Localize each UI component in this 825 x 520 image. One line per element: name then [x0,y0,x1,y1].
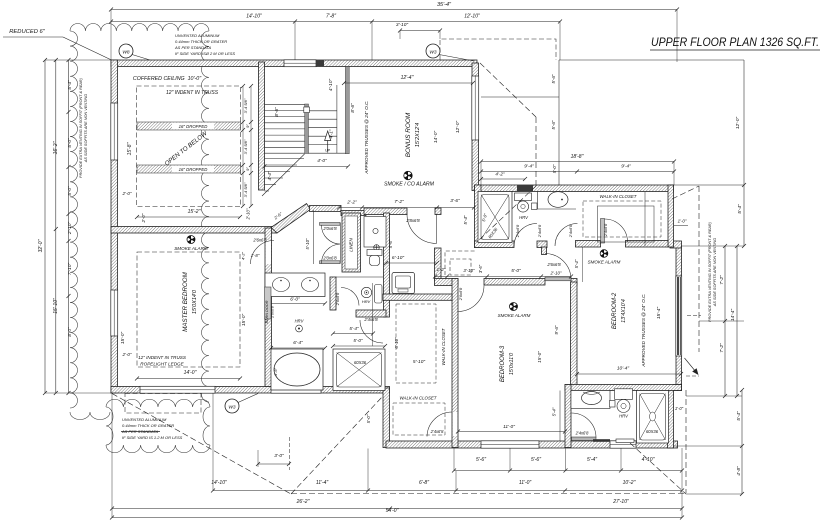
wall top of bath/walk-in closet [475,185,674,192]
svg-text:REDUCED 6": REDUCED 6" [9,29,45,35]
svg-text:3'-4 5/8": 3'-4 5/8" [243,139,248,154]
window master bath bottom [271,386,321,393]
svg-text:14'-10": 14'-10" [246,14,262,20]
svg-text:10'-4": 10'-4" [617,366,630,372]
door bed3 entry [459,286,485,312]
svg-text:15'-2": 15'-2" [188,209,201,215]
svg-text:15'-0": 15'-0" [120,332,126,345]
baseboard heater bed3 corner [593,439,610,442]
svg-text:2'6x6'8: 2'6x6'8 [335,292,340,306]
bath-2 bottom wall left [475,241,515,248]
svg-text:6'-10": 6'-10" [394,337,399,349]
svg-text:11'-0": 11'-0" [519,480,532,486]
svg-text:SMOKE ALARM: SMOKE ALARM [174,246,208,251]
smoke alarm master [187,236,195,244]
svg-text:APPROVED TRUSSES @ 24" O.C.: APPROVED TRUSSES @ 24" O.C. [364,100,369,174]
svg-text:IF SIDE YARD IS 1.2 M OR LESS: IF SIDE YARD IS 1.2 M OR LESS [122,435,183,440]
svg-text:3'-4 5/8": 3'-4 5/8" [243,98,248,113]
shower bath-2 60X36 [478,192,512,243]
svg-text:10'-2": 10'-2" [623,480,636,486]
svg-text:BEDROOM-2: BEDROOM-2 [612,292,618,329]
toilet bath-4 [615,389,633,400]
svg-text:4'-1": 4'-1" [329,129,334,138]
svg-text:9'-4": 9'-4" [621,164,631,170]
svg-text:7'-2": 7'-2" [719,275,725,285]
door bath-4 [572,413,597,438]
svg-text:1'-8": 1'-8" [251,253,260,258]
svg-text:2'4x6'8: 2'4x6'8 [603,223,608,237]
svg-text:12" INDENT IN TRUSS: 12" INDENT IN TRUSS [166,90,219,96]
svg-text:2'4x6'8: 2'4x6'8 [537,224,542,238]
svg-text:3'-6": 3'-6" [478,264,483,273]
svg-text:5'-4": 5'-4" [552,407,557,416]
roof edge lines top right [559,59,744,61]
HRV master [296,325,303,332]
bed3 top wall right [484,279,545,286]
revision cloud left [70,23,209,419]
roof line dashed left valley [112,394,291,495]
svg-text:5'-10": 5'-10" [413,359,426,365]
bath-2 bottom wall jamb [537,241,547,248]
sink 1 [273,278,290,292]
vanity bath-4 [571,391,610,409]
svg-text:8'-6": 8'-6" [350,103,356,113]
sink 2 [302,278,319,292]
svg-text:5'-4": 5'-4" [67,80,73,90]
svg-text:UNVENTED ALUMINUM: UNVENTED ALUMINUM [122,417,167,422]
svg-text:3'-10": 3'-10" [396,22,409,28]
window top wall [284,60,316,67]
exterior wall left [111,60,118,393]
door hall big arc [407,214,437,244]
svg-text:WALK-IN CLOSET: WALK-IN CLOSET [399,396,436,401]
svg-text:UNVENTED ALUMINUM: UNVENTED ALUMINUM [175,33,220,38]
door arcs [322,225,341,263]
svg-text:W8: W8 [122,50,130,56]
svg-text:LINEN: LINEN [349,238,354,252]
svg-text:11'-0": 11'-0" [503,424,515,430]
svg-text:2'0x6'8: 2'0x6'8 [322,255,337,260]
exterior wall top [111,60,477,67]
svg-text:4'-10": 4'-10" [328,79,334,92]
svg-text:7'-8": 7'-8" [326,14,336,20]
walk-in closet upper dashed [396,304,436,383]
svg-text:4'-4": 4'-4" [267,171,272,180]
svg-text:2'6x6'8: 2'6x6'8 [252,238,267,243]
stair treads lower winders [262,154,305,196]
exterior wall bath right [668,390,674,448]
exterior wall master bottom [111,387,390,394]
svg-text:60X36: 60X36 [354,360,367,365]
svg-text:6'-8": 6'-8" [419,480,429,486]
svg-text:SMOKE ALARM: SMOKE ALARM [588,260,621,265]
svg-text:1'-6": 1'-6" [273,367,278,376]
svg-text:7'-10": 7'-10" [67,263,73,276]
svg-text:3'-0": 3'-0" [274,453,284,459]
svg-text:1'-0": 1'-0" [675,406,684,411]
svg-text:54'-0": 54'-0" [386,508,399,514]
svg-text:PROVIDE EXTRA VENTING IN SOFFI: PROVIDE EXTRA VENTING IN SOFFIT (FRONT &… [708,221,712,322]
svg-text:HRV: HRV [519,215,529,220]
wall corner closet/bed2 [670,241,682,248]
svg-text:2'6x6'8: 2'6x6'8 [458,287,463,301]
vanity small hall bath [364,217,386,248]
stair newel post [304,107,310,113]
svg-text:2'6x6'8: 2'6x6'8 [271,305,275,319]
door bath-2 left [514,224,537,247]
roof line dashed right [672,186,699,199]
svg-text:4'-8": 4'-8" [736,466,742,476]
svg-text:15'2X12'4: 15'2X12'4 [415,123,421,148]
svg-text:SMOKE / CO ALARM: SMOKE / CO ALARM [384,182,435,188]
roof line dashed bonus corner [480,63,536,117]
closet bottom wall left [576,241,601,248]
svg-text:HRV: HRV [619,414,629,419]
svg-text:14'-10": 14'-10" [211,480,227,486]
window left wall master [111,290,118,336]
svg-text:APPROVED TRUSSES @ 24" O.C.: APPROVED TRUSSES @ 24" O.C. [641,293,646,367]
svg-text:2'8x6'8: 2'8x6'8 [405,218,420,223]
svg-text:4'-10": 4'-10" [642,457,655,463]
svg-text:2'-0": 2'-0" [141,213,146,223]
window master bottom [140,386,215,393]
svg-text:2'6x6'8: 2'6x6'8 [546,262,561,267]
door bed2 entry [545,277,571,281]
dark post at window end [316,60,324,66]
stair up arrow [325,131,331,153]
door chord line [339,223,341,264]
svg-text:5'-4": 5'-4" [587,457,597,463]
door opening bed3 closet [453,412,458,436]
stair right rail gray [345,67,349,154]
wall bonus bottom left [364,208,407,215]
svg-text:14'-0": 14'-0" [184,370,197,376]
shower bath-4 60X36 [637,391,669,444]
svg-text:5'-4": 5'-4" [463,215,468,225]
window bonus right wall [472,76,479,140]
svg-text:2'0x6'8: 2'0x6'8 [322,226,337,231]
walk-in closet right wall [668,185,674,247]
attic access dashed [445,251,476,275]
closet left boundary line [313,210,315,264]
svg-text:9'-6": 9'-6" [554,325,559,335]
W8 callout [119,44,133,58]
svg-text:15'-0": 15'-0" [537,351,542,363]
wall bed2 bottom / bath top [565,385,682,391]
svg-text:IF SIDE YARD ISØ 2 M OR LESS: IF SIDE YARD ISØ 2 M OR LESS [175,51,235,56]
svg-text:5'-0": 5'-0" [353,338,363,343]
dim extent line WC [372,283,374,346]
smoke alarm bed3 [510,303,518,311]
WC left wall [330,277,336,310]
svg-text:2'-10": 2'-10" [550,271,562,276]
svg-text:5'-6": 5'-6" [551,74,556,84]
svg-text:AS PER STANDATA: AS PER STANDATA [174,45,212,50]
dashed rect below master [125,394,201,414]
svg-text:HRV: HRV [362,299,371,304]
svg-text:1'-0": 1'-0" [678,219,687,224]
svg-text:4'-2": 4'-2" [495,172,505,177]
hall jamb stub [542,247,547,255]
hall right wall [435,248,442,281]
stair treads upper flight [265,85,350,153]
bed3 top wall left [435,279,459,286]
svg-text:5'-4": 5'-4" [737,204,743,214]
svg-text:4'-0": 4'-0" [317,158,327,164]
floor drain symbol [374,245,380,251]
svg-text:6'-4": 6'-4" [293,340,303,346]
svg-text:W3: W3 [228,405,236,411]
dashed rect top bonus [440,39,556,60]
svg-text:60X36: 60X36 [646,429,659,434]
svg-text:3'-6": 3'-6" [450,198,460,204]
svg-text:12" INDENT IN TRUSS: 12" INDENT IN TRUSS [138,355,187,360]
svg-text:12'-0": 12'-0" [455,121,461,134]
svg-text:27'-10": 27'-10" [612,499,629,505]
svg-text:4'-2": 4'-2" [241,251,246,260]
coffered ceiling dashed rect [137,86,241,207]
desk hall [392,273,415,294]
door bed3 closet [427,412,452,437]
svg-text:7'-2": 7'-2" [719,343,725,353]
svg-text:12'-10": 12'-10" [464,14,480,20]
svg-text:5'-6": 5'-6" [551,120,556,130]
smoke co alarm bonus [404,171,412,179]
door bed2 closet [601,219,605,244]
toilet hall bath [367,250,382,256]
svg-text:12'-0": 12'-0" [735,117,741,130]
sink bath-2 [537,192,539,210]
dropped bar 2 [137,165,241,173]
dropped bar 1 [137,122,241,130]
svg-text:2'4x6'8: 2'4x6'8 [515,224,520,238]
svg-text:5'-4": 5'-4" [574,259,579,268]
svg-text:2'4x6'8: 2'4x6'8 [363,317,378,322]
linen inner [345,216,358,269]
window bath4 bottom [610,441,636,448]
svg-text:3'-4 5/8": 3'-4 5/8" [243,182,248,197]
W3 callout top [426,44,440,58]
svg-text:14'-0": 14'-0" [433,131,439,144]
svg-text:1'-2": 1'-2" [437,267,446,272]
svg-text:ROPELIGHT LEDGE: ROPELIGHT LEDGE [140,362,184,367]
svg-text:15'0x11'0: 15'0x11'0 [509,353,515,375]
svg-text:UPPER FLOOR PLAN 1326 SQ.FT.: UPPER FLOOR PLAN 1326 SQ.FT. [651,35,819,49]
svg-text:26'-2": 26'-2" [296,499,310,505]
svg-text:2'4x6'8: 2'4x6'8 [575,431,589,436]
smoke alarm bed2 [600,250,608,258]
svg-text:12'-4": 12'-4" [401,75,414,81]
door bath-2 right [555,224,578,247]
svg-text:15'-4": 15'-4" [656,307,662,320]
svg-text:WALK-IN CLOSET: WALK-IN CLOSET [599,194,636,199]
door tub area [360,320,383,343]
svg-text:5'-4": 5'-4" [349,326,359,331]
svg-text:5'-0": 5'-0" [67,186,73,196]
exterior wall bedroom-2 right [676,246,682,391]
window sill bath4 [616,439,634,443]
walk-in closet bed2 dashed [583,201,661,237]
svg-text:35'-4": 35'-4" [437,2,452,8]
svg-text:BEDROOM-3: BEDROOM-3 [500,345,506,382]
W3 callout bottom [225,399,239,413]
svg-text:UP: UP [325,149,331,153]
svg-text:WALK-IN CLOSET: WALK-IN CLOSET [441,328,446,365]
svg-text:AS SIDE SOFFITS ARE NON VENTIN: AS SIDE SOFFITS ARE NON VENTING [713,238,717,307]
svg-text:13'4X10'4: 13'4X10'4 [621,299,627,323]
linen closet [342,213,361,272]
svg-text:BONUS ROOM: BONUS ROOM [405,112,412,157]
svg-text:5'-10": 5'-10" [305,238,310,250]
svg-text:16" DROPPED: 16" DROPPED [179,124,208,129]
closet top wall [383,294,452,300]
svg-text:COFFERED CEILING 10'-0": COFFERED CEILING 10'-0" [133,76,202,82]
svg-text:6'-0": 6'-0" [290,297,300,303]
svg-text:PROVIDE EXTRA VENTING IN SOFFI: PROVIDE EXTRA VENTING IN SOFFIT (FRONT &… [79,77,83,178]
svg-text:5'-6": 5'-6" [388,239,393,248]
dashed vertical near 3-0 dim [289,437,291,470]
svg-text:2'-2": 2'-2" [346,200,357,206]
revision cloud note bottom-left [106,399,210,452]
HRV fan WC area [361,287,371,297]
bath-2 left wall [475,185,482,248]
wall corner bed2 bottom-right [674,385,682,391]
toilet bath-2 [515,193,532,201]
bath-4 left wall [565,385,571,448]
svg-text:5'-0": 5'-0" [511,268,521,274]
svg-text:7'-2": 7'-2" [394,199,404,205]
svg-text:8'-6": 8'-6" [274,107,280,117]
stair stringer gray [305,104,309,154]
window left wall upper [111,103,118,160]
switch box bath-4 [610,401,616,408]
closet bottom wall right [626,241,669,248]
svg-text:32'-0": 32'-0" [38,239,44,252]
svg-text:15'-0": 15'-0" [241,314,247,327]
tray ceiling dashed rect master [137,252,240,367]
window bed2 right glazing [676,276,682,356]
svg-text:5'-4": 5'-4" [736,411,742,421]
svg-text:2'4x6'8: 2'4x6'8 [430,429,444,434]
svg-text:5'-0": 5'-0" [366,414,371,423]
master bedroom right wall [265,228,272,387]
door opening master [266,240,272,264]
wall master/open-below divider [111,227,277,234]
bonus room right wall [472,63,479,191]
svg-text:0.44mm THICK OR GRATER: 0.44mm THICK OR GRATER [122,423,174,428]
svg-text:2'-10": 2'-10" [246,208,251,220]
stair left wall [259,62,265,190]
svg-text:BARN DOOR: BARN DOOR [265,300,269,323]
wall hall/ensuite divider [384,213,390,317]
window bed3 bottom [481,441,539,448]
door walk-in closet double upper leaf [320,223,341,226]
svg-text:5'-6": 5'-6" [531,457,541,463]
door WC master [341,288,359,306]
tub master [271,349,323,390]
svg-text:5'-6": 5'-6" [476,457,486,463]
wall above linen [341,211,366,216]
svg-text:15'-8": 15'-8" [127,142,133,155]
bed2 left wall [571,282,578,390]
shower master 60X36 [333,349,385,391]
svg-text:3'-10": 3'-10" [463,268,475,273]
wall step master-bath/closet [383,388,390,448]
svg-text:MASTER BEDROOM: MASTER BEDROOM [182,271,189,331]
svg-text:SMOKE ALARM: SMOKE ALARM [498,313,531,318]
svg-text:11'-4": 11'-4" [316,480,329,486]
svg-text:2'4x6'8: 2'4x6'8 [568,224,573,238]
svg-text:HRV: HRV [295,319,305,324]
bed2 door jamb [571,279,577,286]
svg-text:15'0X14'0: 15'0X14'0 [192,289,198,314]
bed3 left wall [452,279,458,448]
svg-text:5'-0": 5'-0" [67,138,73,148]
dim 5-4 bed3 corner [559,391,561,442]
leader arrow bed2 corner [685,358,697,372]
door master bedroom [251,241,275,265]
svg-text:8'-0": 8'-0" [67,327,73,337]
wall hall upper [310,206,342,212]
door walk-in closet double lower leaf [320,261,341,264]
svg-text:16" DROPPED: 16" DROPPED [179,167,208,172]
double vanity master [265,273,325,297]
wall bonus bottom right stub [435,208,441,215]
exterior wall bottom [386,441,678,448]
WC top line [336,276,383,278]
svg-text:2'-10": 2'-10" [67,222,73,236]
svg-text:5'-0": 5'-0" [552,164,557,173]
svg-text:18'-8": 18'-8" [571,154,584,160]
svg-text:2'-0": 2'-0" [122,352,132,357]
diagonal stair wall [271,204,311,234]
svg-text:AS SIDE SOFFITS ARE NON VENTIN: AS SIDE SOFFITS ARE NON VENTING [84,94,88,163]
window dark bath-2 top [517,185,533,192]
switch box [532,203,538,210]
svg-text:2'-0": 2'-0" [122,191,132,196]
svg-text:W3: W3 [429,50,437,56]
svg-text:9'-4": 9'-4" [524,164,534,170]
svg-text:0.44mm THICK OR GRATER: 0.44mm THICK OR GRATER [175,39,227,44]
svg-text:6'-10": 6'-10" [392,255,405,261]
WC bottom wall [356,310,386,317]
svg-text:14'-4": 14'-4" [730,309,736,322]
